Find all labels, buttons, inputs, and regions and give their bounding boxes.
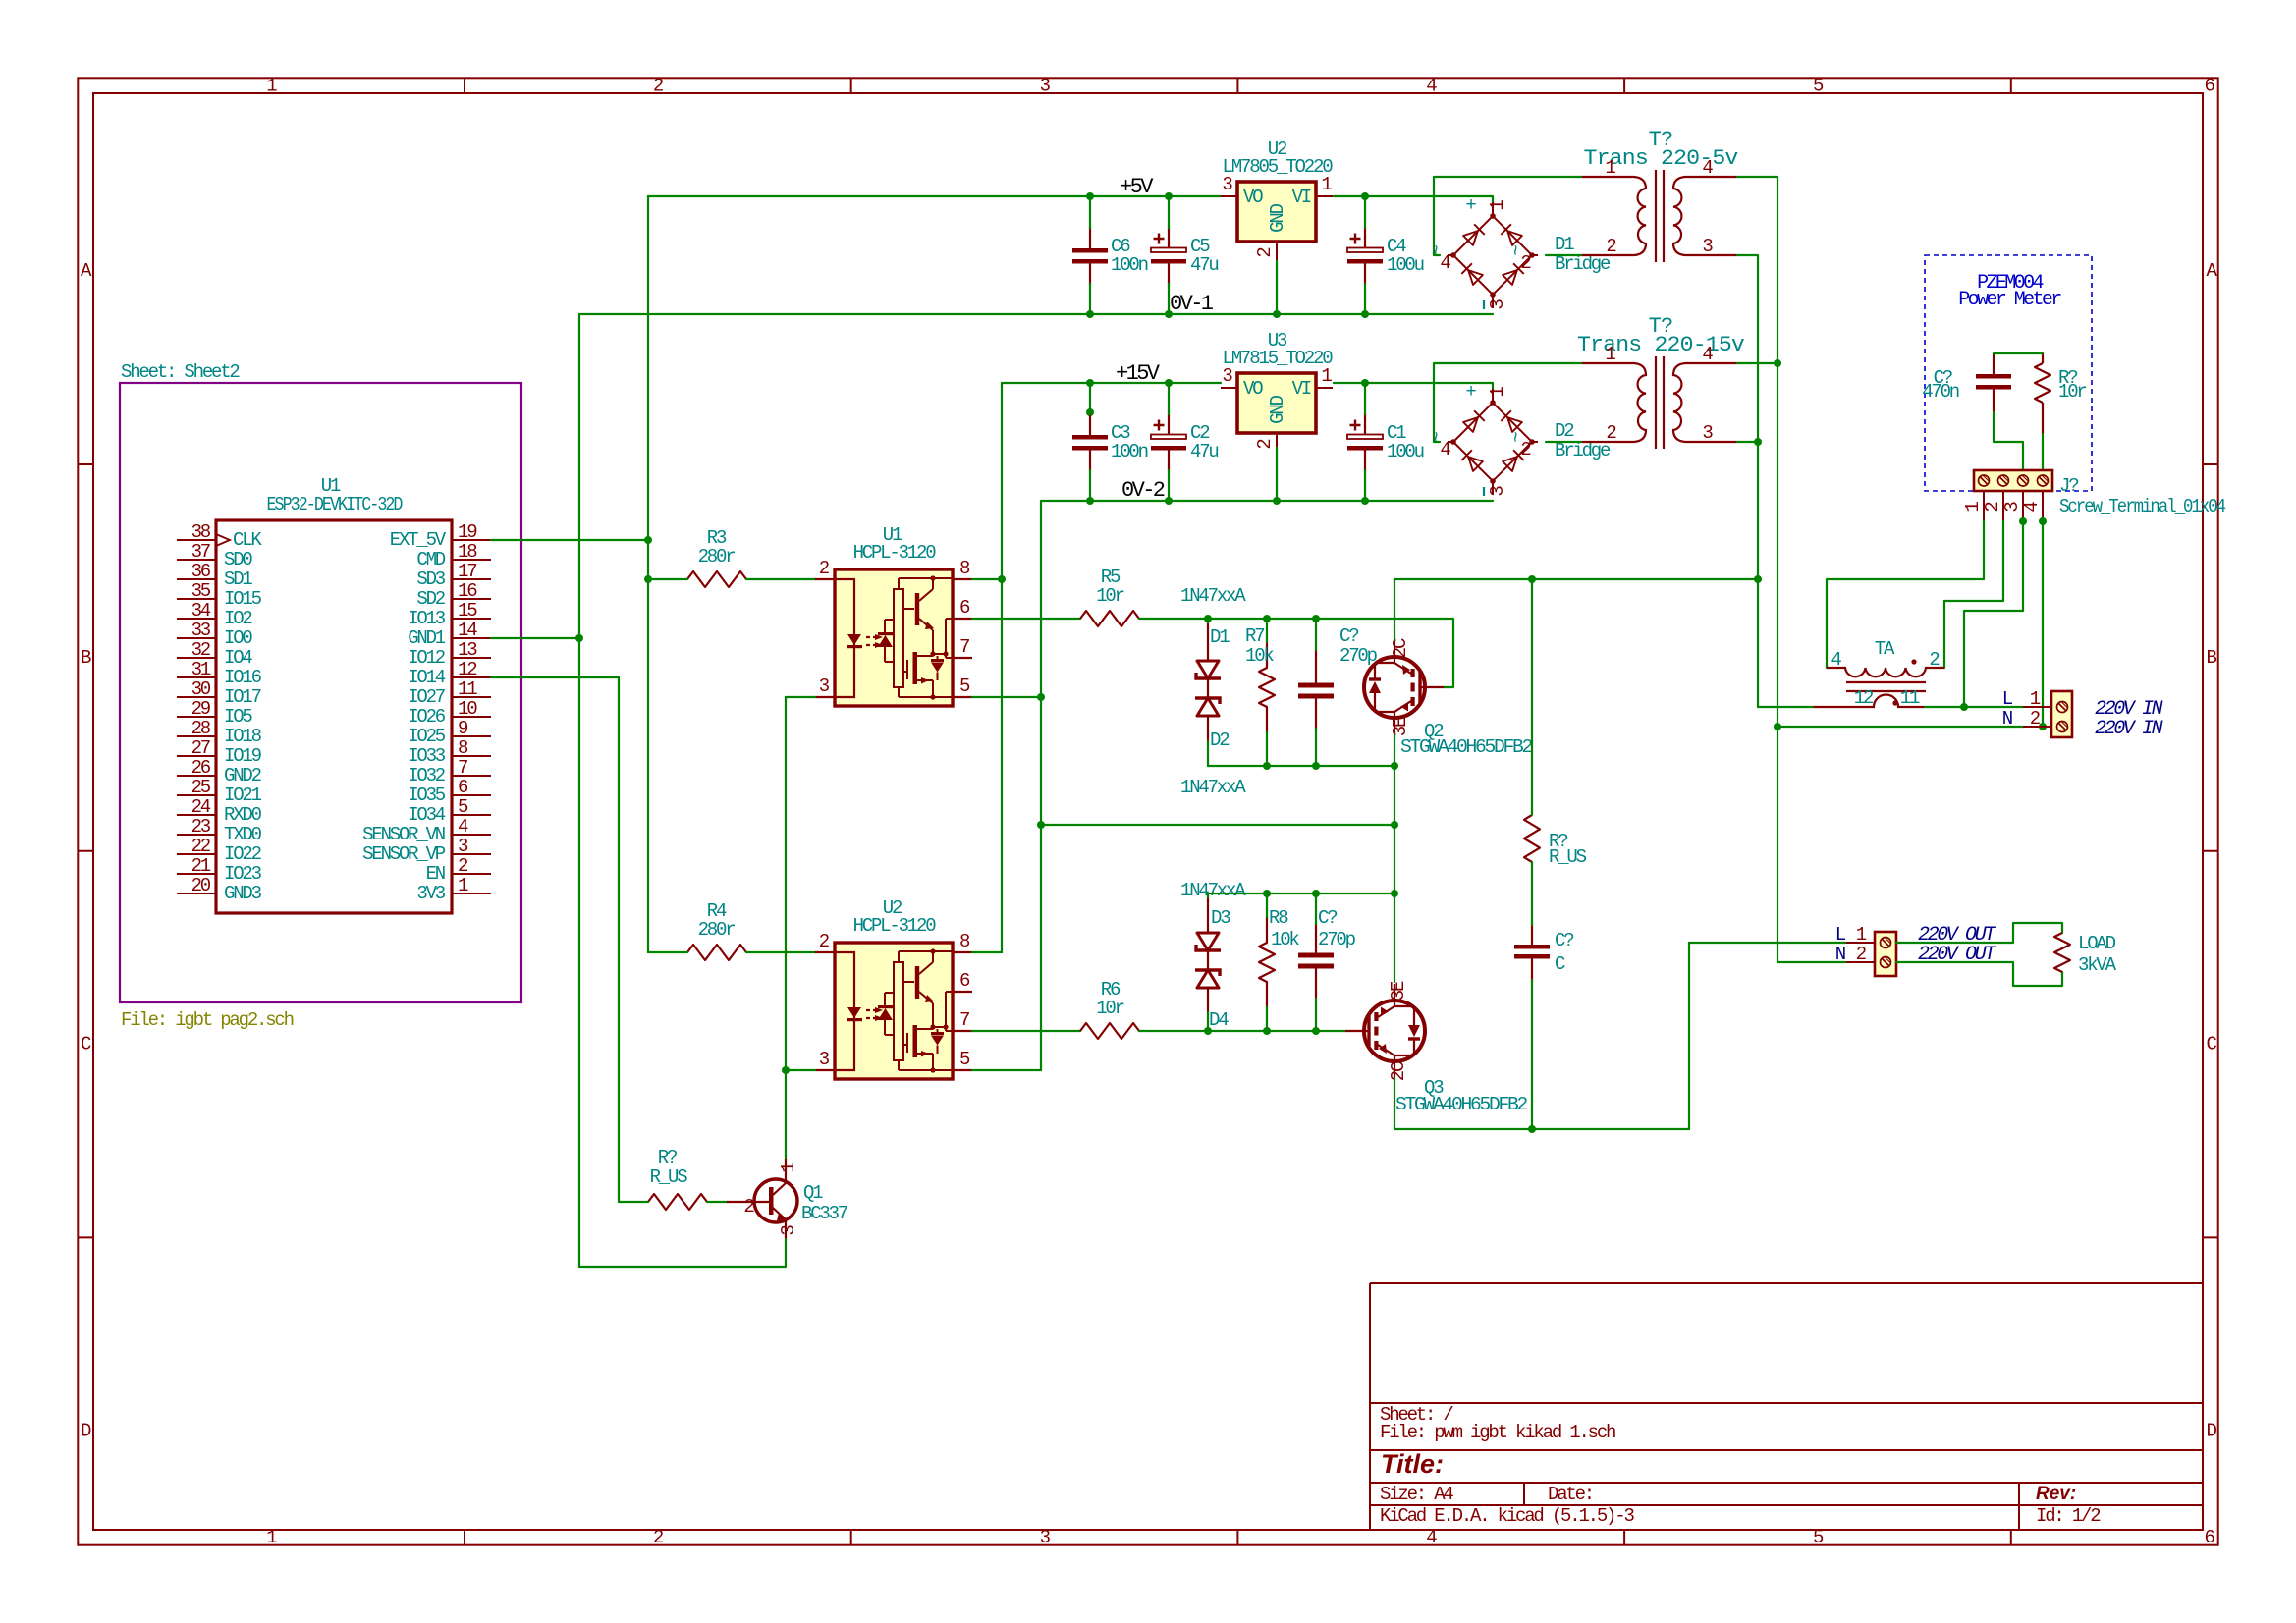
junction C? lower top [1312, 890, 1320, 897]
wire D1z leads [1207, 619, 1209, 622]
svg-text:3: 3 [1040, 1527, 1051, 1548]
svg-text:B: B [81, 647, 91, 669]
svg-text:TA: TA [1875, 638, 1895, 660]
svg-text:220V IN: 220V IN [2095, 718, 2163, 740]
resistor R3 280r [687, 571, 746, 587]
wire J4 to N [2042, 521, 2044, 727]
junction N x1810 [1774, 723, 1781, 730]
resistor LOAD 3kVA [2054, 933, 2070, 972]
junction U-pin3 net [782, 1066, 790, 1074]
svg-text:270p: 270p [1339, 645, 1378, 667]
wire GND1/0V-1 net vertical x=590 [578, 314, 580, 1267]
svg-text:10r: 10r [1096, 585, 1123, 607]
svg-text:SD0: SD0 [224, 549, 252, 570]
svg-text:30: 30 [191, 678, 211, 700]
svg-text:IO27: IO27 [408, 686, 445, 708]
junction 0V-1 [1165, 310, 1173, 318]
svg-text:J?: J? [2059, 475, 2078, 497]
svg-text:7: 7 [959, 636, 969, 658]
svg-text:D: D [81, 1420, 91, 1441]
svg-text:280r: 280r [698, 919, 736, 941]
svg-text:Title:: Title: [1381, 1449, 1444, 1479]
svg-text:14: 14 [458, 620, 477, 641]
bridge rectifier D2 [1448, 389, 1538, 495]
svg-text:36: 36 [191, 561, 211, 582]
svg-text:C: C [2207, 1034, 2217, 1055]
svg-text:GND: GND [1267, 203, 1288, 232]
wire R? to J4 [2042, 434, 2044, 475]
svg-text:GND1: GND1 [408, 627, 446, 649]
capacitor C? 270p upper [1298, 683, 1334, 688]
svg-text:27: 27 [191, 737, 210, 759]
svg-text:12: 12 [458, 659, 477, 680]
svg-text:IO5: IO5 [224, 706, 252, 728]
wire snubber upper [1531, 579, 1533, 815]
svg-text:R_US: R_US [650, 1166, 688, 1188]
svg-text:Bridge: Bridge [1555, 440, 1611, 461]
wire 0V-1 rail [579, 313, 1493, 315]
wire T2 pin3 [1737, 441, 1758, 443]
svg-text:11: 11 [1900, 687, 1920, 709]
wire C4 leads [1364, 196, 1366, 228]
junction R7 top [1263, 615, 1271, 622]
wire R_US leads [619, 1201, 648, 1203]
wire D3z leads [1207, 893, 1209, 897]
junction T2 pin4 [1774, 359, 1781, 367]
svg-text:SENSOR_VN: SENSOR_VN [362, 824, 445, 845]
svg-text:13: 13 [458, 639, 477, 661]
wire OUT L [1689, 942, 1845, 944]
svg-text:Power Meter: Power Meter [1958, 289, 2061, 311]
wire Q3 collector down [1394, 1078, 1395, 1129]
svg-text:IO34: IO34 [408, 804, 446, 826]
svg-text:10k: 10k [1271, 929, 1299, 950]
svg-text:4: 4 [1426, 76, 1437, 97]
junction R8 bottom [1263, 1027, 1271, 1035]
svg-text:SD1: SD1 [224, 568, 252, 590]
wire C5 leads [1168, 196, 1170, 228]
svg-text:25: 25 [191, 777, 211, 798]
wire +5V rail [648, 195, 1221, 197]
wire 0V-2 rail [1041, 500, 1493, 502]
svg-text:2: 2 [653, 1527, 664, 1548]
connector J? Screw_Terminal_01x04 [1974, 470, 2052, 491]
capacitor C6 [1072, 248, 1108, 253]
junction T2 pin3 [1754, 438, 1762, 446]
wire GND1 pin14 [491, 637, 579, 639]
resistor R? R_US base [648, 1194, 707, 1210]
wire OUT N [1777, 961, 1845, 963]
junction C? lower bottom [1312, 1027, 1320, 1035]
junction +5V C6 [1086, 192, 1094, 200]
wire Q2 collector [1394, 579, 1395, 640]
wire R3 leads [648, 578, 687, 580]
svg-text:R8: R8 [1269, 907, 1288, 929]
wire D1 pin4 to T1 pin1 [1434, 177, 1582, 255]
junction 0V-1 [1273, 310, 1281, 318]
zener diodes D3 D4 [1197, 933, 1219, 950]
wire T1 pin3 down x=1790 [1737, 255, 1758, 707]
svg-text:280r: 280r [698, 546, 736, 568]
svg-text:3E: 3E [1390, 717, 1411, 736]
svg-text:33: 33 [191, 620, 211, 641]
svg-text:Id: 1/2: Id: 1/2 [2036, 1505, 2101, 1527]
svg-text:RXD0: RXD0 [224, 804, 262, 826]
wire LOAD top [1896, 923, 2062, 943]
svg-text:100u: 100u [1387, 441, 1424, 462]
wire N rail [1777, 726, 2023, 728]
junction EXT_5V [644, 536, 652, 544]
svg-text:Q1: Q1 [803, 1182, 823, 1204]
resistor R6 10r [1080, 1023, 1139, 1039]
wire +15V feed vertical x=1020 [1001, 383, 1003, 952]
svg-text:GND2: GND2 [224, 765, 262, 786]
svg-text:7: 7 [959, 1009, 969, 1031]
svg-text:1N47xxA: 1N47xxA [1180, 777, 1246, 798]
svg-text:IO35: IO35 [408, 784, 446, 806]
bridge rectifier D1 [1448, 202, 1538, 308]
wire C1 leads [1364, 383, 1366, 414]
wire C? upper leads [1315, 619, 1317, 650]
hierarchical sheet Sheet2 [120, 383, 521, 1002]
svg-text:IO26: IO26 [408, 706, 446, 728]
wire U2 pin3 [786, 1069, 815, 1071]
capacitor C? 270p lower [1298, 953, 1334, 958]
svg-text:7: 7 [458, 757, 467, 779]
svg-text:10: 10 [458, 698, 477, 720]
svg-text:47u: 47u [1190, 254, 1218, 276]
junction 0V-1 [1361, 310, 1369, 318]
svg-text:VI: VI [1292, 378, 1311, 400]
svg-text:D: D [2207, 1420, 2217, 1441]
svg-text:C?: C? [1555, 930, 1573, 951]
wire U2 pin5 to 0V-2 [972, 1069, 1041, 1071]
zener diodes D1 D2 [1197, 661, 1219, 678]
svg-text:SENSOR_VP: SENSOR_VP [362, 843, 446, 865]
svg-text:LOAD: LOAD [2078, 933, 2116, 954]
wire N down to 220V OUT [1777, 727, 1778, 962]
svg-text:GND: GND [1267, 395, 1288, 423]
svg-text:26: 26 [191, 757, 211, 779]
svg-text:270p: 270p [1318, 929, 1356, 950]
junction lower net top right [1391, 890, 1398, 897]
svg-text:2C: 2C [1388, 1061, 1409, 1081]
junction J3 [2019, 517, 2027, 525]
svg-text:34: 34 [191, 600, 211, 622]
svg-text:D1: D1 [1555, 234, 1574, 255]
svg-text:IO15: IO15 [224, 588, 262, 610]
svg-text:R7: R7 [1245, 625, 1264, 647]
wire IO14 pin12 [491, 676, 619, 678]
PZEM004 power-meter dashed box [1925, 255, 2092, 491]
wire U3 GND pin2 [1276, 448, 1278, 501]
svg-text:IO13: IO13 [408, 608, 446, 629]
junction VI C4 [1361, 192, 1369, 200]
svg-text:IO19: IO19 [224, 745, 262, 767]
wire gate row upper [1139, 619, 1453, 687]
svg-text:37: 37 [191, 541, 210, 563]
wire snubber middle [1531, 862, 1533, 925]
svg-text:D2: D2 [1555, 420, 1574, 442]
svg-text:+5V: +5V [1120, 175, 1154, 199]
junction Q2 emitter [1391, 762, 1398, 770]
regulator U3 LM7815_TO220 [1237, 373, 1316, 433]
junction D3z bottom [1204, 1027, 1212, 1035]
svg-text:15: 15 [458, 600, 477, 622]
junction J4-N [2039, 723, 2047, 730]
wire R8 leads [1266, 893, 1268, 917]
svg-text:CMD: CMD [416, 549, 445, 570]
svg-text:24: 24 [191, 796, 211, 818]
svg-text:+15V: +15V [1116, 361, 1161, 386]
wire IO14 net vertical x=630 [618, 677, 620, 1202]
IC U1 ESP32-DEVKITC-32D [216, 520, 452, 913]
wire snubber lower [1531, 980, 1533, 1129]
svg-text:D1: D1 [1210, 626, 1230, 648]
wire U1 pin6 to R5 [972, 618, 1080, 620]
wire R7 leads [1266, 619, 1268, 642]
transistor Q1 BC337 [754, 1179, 797, 1222]
svg-text:1: 1 [266, 1527, 277, 1548]
wire D1 pin2 to T1 pin2 [1546, 254, 1582, 256]
svg-text:19: 19 [458, 521, 477, 543]
connector 220V OUT screw terminal [1875, 932, 1896, 976]
junction collinear [1086, 408, 1094, 416]
svg-text:4: 4 [1426, 1527, 1437, 1548]
wire Q1 emitter return [579, 1239, 786, 1267]
svg-text:5: 5 [1813, 1527, 1824, 1548]
svg-text:C?: C? [1339, 625, 1358, 647]
svg-text:20: 20 [191, 875, 211, 896]
junction 0V2-ext left [1037, 821, 1045, 829]
svg-text:Bridge: Bridge [1555, 253, 1611, 275]
junction 0V-2 [1273, 497, 1281, 505]
connector 220V IN screw terminal [2051, 691, 2072, 737]
wire D2 pin4 to T2 pin1 [1434, 363, 1582, 442]
svg-text:6: 6 [2205, 1527, 2215, 1548]
svg-text:35: 35 [191, 580, 211, 602]
svg-text:ESP32-DEVKITC-32D: ESP32-DEVKITC-32D [267, 494, 404, 515]
junction C? top [1312, 615, 1320, 622]
svg-text:38: 38 [191, 521, 211, 543]
junction R3 input [644, 575, 652, 583]
wire EXT_5V net vertical x=660 [647, 196, 649, 952]
svg-text:IO21: IO21 [224, 784, 262, 806]
resistor R5 10r [1080, 611, 1139, 626]
svg-text:3E: 3E [1388, 981, 1409, 1001]
capacitor C4 [1347, 248, 1383, 253]
svg-text:VO: VO [1243, 378, 1263, 400]
wire C6 leads [1089, 196, 1091, 228]
transformer TA (current sense) [1827, 668, 1944, 676]
wire LOAD bottom [1896, 962, 2062, 986]
svg-text:28: 28 [191, 718, 211, 739]
svg-text:File: igbt pag2.sch: File: igbt pag2.sch [121, 1009, 294, 1031]
svg-text:C: C [81, 1034, 91, 1055]
junction snubber top [1528, 575, 1536, 583]
svg-text:Screw_Terminal_01x04: Screw_Terminal_01x04 [2059, 496, 2226, 517]
wire R4 leads [648, 951, 687, 953]
wire PZEM RC top link [1994, 352, 2043, 354]
resistor R? 10r (PZEM) [2035, 363, 2050, 403]
junction VI C1 [1361, 379, 1369, 387]
svg-text:STGWA40H65DFB2: STGWA40H65DFB2 [1395, 1094, 1528, 1115]
svg-text:HCPL-3120: HCPL-3120 [853, 542, 937, 564]
svg-text:GND3: GND3 [224, 883, 262, 904]
wire Q2E down [1394, 766, 1395, 982]
wire U2 GND pin2 [1276, 261, 1278, 314]
transformer T1 Trans 220-5v [1582, 170, 1737, 262]
svg-text:HCPL-3120: HCPL-3120 [853, 915, 937, 937]
svg-text:SD2: SD2 [416, 588, 445, 610]
junction J4 [2039, 517, 2047, 525]
transformer T2 Trans 220-15v [1582, 356, 1737, 449]
wire D2 pin2 to T2 pin2 [1546, 441, 1582, 443]
wire J1 to TA pin4 [1827, 521, 1984, 668]
svg-text:EXT_5V: EXT_5V [390, 529, 447, 551]
resistor R? R_US snubber [1524, 815, 1540, 862]
capacitor C? 470n (PZEM) [1976, 374, 2011, 379]
wire C? lower leads [1315, 893, 1317, 924]
svg-text:IO12: IO12 [408, 647, 446, 669]
capacitor C1 [1347, 435, 1383, 440]
wire U2 pin8 to +15V feed [972, 951, 1002, 953]
wire T2 pin4 [1737, 362, 1777, 364]
svg-text:SD3: SD3 [416, 568, 445, 590]
svg-text:Size: A4: Size: A4 [1380, 1484, 1453, 1505]
resistor R7 10k [1259, 668, 1275, 707]
junction L [1960, 703, 1968, 711]
junction +15V C3 [1086, 379, 1094, 387]
regulator U2 LM7805_TO220 [1237, 182, 1316, 242]
svg-text:10r: 10r [2058, 381, 2086, 403]
svg-text:IO18: IO18 [224, 726, 262, 747]
svg-text:Trans 220-15v: Trans 220-15v [1577, 333, 1745, 357]
svg-text:IO0: IO0 [224, 627, 252, 649]
svg-text:100n: 100n [1111, 254, 1148, 276]
svg-text:2: 2 [653, 76, 664, 97]
svg-text:R_US: R_US [1549, 846, 1587, 868]
svg-text:File: pwm igbt kikad 1.sch: File: pwm igbt kikad 1.sch [1380, 1422, 1615, 1443]
svg-text:VO: VO [1243, 187, 1263, 208]
svg-text:17: 17 [458, 561, 476, 582]
capacitor C? C snubber [1514, 945, 1550, 949]
wire EXT_5V pin19 [491, 539, 648, 541]
svg-text:11: 11 [458, 678, 477, 700]
junction 0V-2 [1361, 497, 1369, 505]
wire VI to bridge D2 [1334, 383, 1493, 391]
wire U2 pin7 to R6 [972, 1030, 1080, 1032]
svg-text:Sheet: Sheet2: Sheet: Sheet2 [121, 361, 240, 383]
junction snubber bottom [1528, 1125, 1536, 1133]
svg-text:18: 18 [458, 541, 477, 563]
wire C2 leads [1168, 383, 1170, 414]
junction U1 pin5 [1037, 693, 1045, 701]
svg-text:LM7805_TO220: LM7805_TO220 [1223, 156, 1334, 178]
svg-text:1N47xxA: 1N47xxA [1180, 585, 1246, 607]
capacitor C5 [1151, 248, 1186, 253]
svg-text:29: 29 [191, 698, 211, 720]
wire U-pin3 net vertical x=800 [785, 697, 787, 1159]
wire U1 pin8 to +15V feed [972, 578, 1002, 580]
wire Q2 emitter [1394, 734, 1395, 766]
svg-text:CLK: CLK [233, 529, 262, 551]
wire VI to bridge D1 [1334, 196, 1493, 204]
wire 0V-2 extension [1041, 824, 1394, 826]
svg-text:IO32: IO32 [408, 765, 446, 786]
junction R7 bottom [1263, 762, 1271, 770]
wire Q2 collector bus [1394, 578, 1758, 580]
wire C? to J3 [1994, 412, 2023, 475]
svg-text:100n: 100n [1111, 441, 1148, 462]
wire gate row lower [1139, 1030, 1345, 1032]
capacitor C3 [1072, 435, 1108, 440]
junction GND1 [575, 634, 583, 642]
wire T1 pin4 down x=1810 [1737, 177, 1777, 727]
wire J3 to L [1964, 521, 2023, 707]
svg-text:IO2: IO2 [224, 608, 252, 629]
svg-text:LM7815_TO220: LM7815_TO220 [1223, 348, 1334, 369]
svg-text:3: 3 [1040, 76, 1051, 97]
svg-text:R?: R? [658, 1147, 677, 1168]
junction 0V-1 [1086, 310, 1094, 318]
wire Q3 collector bus [1394, 1128, 1689, 1130]
junction R8 top [1263, 890, 1271, 897]
junction 0V2-ext right [1391, 821, 1398, 829]
svg-text:10k: 10k [1245, 645, 1274, 667]
wire zener rail lower [1208, 893, 1394, 894]
svg-text:D2: D2 [1210, 730, 1230, 751]
svg-text:VI: VI [1292, 187, 1311, 208]
svg-text:5: 5 [1813, 76, 1824, 97]
svg-text:10r: 10r [1096, 998, 1123, 1019]
opto-coupler U1 HCPL-3120 [815, 569, 972, 706]
svg-text:IO4: IO4 [224, 647, 252, 669]
resistor R8 10k [1259, 943, 1275, 982]
svg-text:31: 31 [191, 659, 211, 680]
junction +15V C2 [1165, 379, 1173, 387]
transistor Q3 STGWA40H65DFB2 [1345, 984, 1425, 1078]
junction C? bottom [1312, 762, 1320, 770]
wire emitter rail upper [1208, 765, 1394, 767]
transistor Q2 STGWA40H65DFB2 [1364, 640, 1444, 734]
svg-text:TXD0: TXD0 [224, 824, 262, 845]
junction 0V-2 [1086, 497, 1094, 505]
wire C3 leads [1089, 383, 1091, 414]
svg-text:32: 32 [191, 639, 211, 661]
junction Q2C bus at x=1790 [1754, 575, 1762, 583]
junction U1 pin8 [998, 575, 1006, 583]
svg-text:C?: C? [1318, 907, 1337, 929]
svg-text:IO17: IO17 [224, 686, 261, 708]
svg-text:2C: 2C [1390, 638, 1411, 658]
svg-text:Date:: Date: [1548, 1484, 1593, 1505]
wire out-L up [1688, 943, 1690, 1129]
junction +5V C5 [1165, 192, 1173, 200]
junction D1z top [1204, 615, 1212, 622]
svg-text:3kVA: 3kVA [2078, 954, 2117, 976]
svg-text:1: 1 [266, 76, 277, 97]
svg-text:0V-1: 0V-1 [1170, 292, 1214, 316]
svg-text:IO23: IO23 [224, 863, 262, 885]
svg-text:IO22: IO22 [224, 843, 262, 865]
wire U1 pin5 to 0V-2 [972, 696, 1041, 698]
svg-text:16: 16 [458, 580, 477, 602]
svg-text:12: 12 [1854, 687, 1874, 709]
wire +15V rail [1002, 382, 1221, 384]
svg-text:21: 21 [191, 855, 211, 877]
svg-text:3V3: 3V3 [416, 883, 445, 904]
